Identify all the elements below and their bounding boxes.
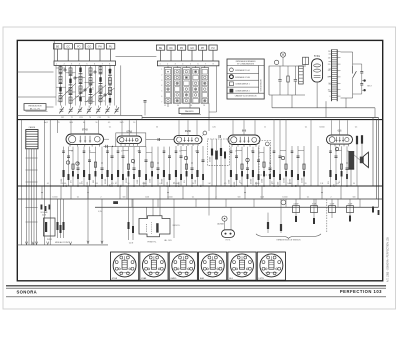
- wire: [208, 120, 210, 131]
- svg-text:25: 25: [58, 100, 60, 102]
- voltage divider brace: [256, 234, 321, 239]
- inter-block wire: [120, 65, 122, 115]
- output transformer: [348, 152, 354, 170]
- svg-text:T4: T4: [89, 117, 91, 119]
- svg-text:0,1: 0,1: [192, 196, 194, 198]
- mains plug pins: [363, 79, 365, 81]
- bleeder resistors under caps: [295, 216, 297, 222]
- svg-text:6: 6: [94, 63, 95, 65]
- converter stage components: [61, 147, 114, 187]
- alignment note line: [17, 244, 108, 246]
- wire: [146, 139, 174, 141]
- svg-text:4T: 4T: [121, 151, 123, 153]
- svg-text:2: 2: [331, 196, 332, 198]
- svg-text:COMMUTATEUR 2: COMMUTATEUR 2: [235, 90, 250, 93]
- svg-text:0,1: 0,1: [77, 196, 79, 198]
- svg-text:50: 50: [156, 127, 158, 129]
- wire: [280, 199, 282, 233]
- wire: [317, 146, 319, 186]
- harness arrows: [25, 242, 27, 245]
- svg-text:BOBINAGE OC-BE: BOBINAGE OC-BE: [235, 76, 251, 79]
- svg-text:PU: PU: [109, 46, 113, 49]
- svg-text:CV5: CV5: [98, 117, 101, 119]
- svg-text:20.000: 20.000: [250, 179, 252, 184]
- svg-text:0,1: 0,1: [305, 127, 307, 129]
- svg-text:6: 6: [208, 255, 209, 257]
- svg-text:SECT: SECT: [367, 85, 372, 87]
- svg-text:CV3: CV3: [79, 117, 82, 119]
- svg-text:0,5: 0,5: [224, 183, 226, 185]
- wire: [291, 95, 293, 108]
- svg-text:25: 25: [235, 151, 237, 153]
- AF dashed box: [259, 141, 271, 176]
- wire: [267, 213, 269, 233]
- svg-text:T2: T2: [71, 117, 73, 119]
- svg-text:5: 5: [190, 64, 191, 66]
- dial lamp: [274, 60, 278, 64]
- wire: [21, 120, 23, 245]
- svg-text:4: 4: [161, 85, 162, 87]
- svg-text:PO: PO: [77, 46, 81, 49]
- wire: [271, 95, 273, 108]
- svg-text:0,5 M: 0,5 M: [129, 242, 134, 244]
- svg-text:1: 1: [251, 269, 252, 271]
- svg-text:BE: BE: [56, 46, 60, 49]
- svg-text:5.000: 5.000: [261, 179, 263, 183]
- svg-text:500: 500: [238, 196, 241, 198]
- svg-text:OC: OC: [169, 48, 173, 50]
- svg-text:0,5: 0,5: [337, 183, 339, 185]
- svg-text:130: 130: [328, 57, 331, 59]
- svg-text:5.000: 5.000: [228, 180, 230, 184]
- svg-text:0,1: 0,1: [307, 196, 309, 198]
- svg-text:50: 50: [179, 151, 181, 153]
- svg-text:1n: 1n: [264, 127, 266, 129]
- svg-text:CV1: CV1: [61, 117, 64, 119]
- coupling capacitor: [219, 135, 221, 138]
- svg-text:PU: PU: [211, 48, 215, 50]
- resistor: [287, 76, 289, 82]
- harness wires: [26, 149, 28, 245]
- switch box: [44, 218, 56, 236]
- mid circles row: [66, 161, 69, 164]
- harness ticks: [26, 157, 38, 159]
- legend symbol circle thin: [230, 68, 234, 72]
- svg-text:6TH8: 6TH8: [82, 129, 88, 131]
- svg-text:4: 4: [182, 64, 183, 66]
- wires to contact bar: [160, 50, 162, 61]
- svg-text:0,1: 0,1: [195, 151, 197, 153]
- svg-text:0,5: 0,5: [115, 182, 117, 184]
- svg-text:2: 2: [157, 274, 158, 276]
- dashed feed wire: [326, 199, 328, 233]
- tube 6TH8: [66, 120, 104, 146]
- svg-text:6TH8: 6TH8: [112, 278, 118, 280]
- svg-text:5.000: 5.000: [175, 183, 179, 185]
- svg-text:0,1: 0,1: [272, 183, 274, 185]
- svg-text:4: 4: [144, 269, 145, 271]
- svg-text:0,5: 0,5: [339, 181, 341, 183]
- svg-text:2: 2: [101, 196, 102, 198]
- socket 6TA8: [140, 252, 168, 280]
- svg-text:VERS P.U.: VERS P.U.: [173, 225, 181, 227]
- chassis bus: [17, 185, 382, 187]
- svg-text:VOLUME: VOLUME: [41, 212, 49, 214]
- svg-text:2x25: 2x25: [120, 122, 124, 124]
- filter capacitor bank: [293, 206, 300, 213]
- contact bar S2: [157, 61, 219, 66]
- svg-text:3: 3: [161, 80, 162, 82]
- svg-text:8: 8: [163, 261, 164, 263]
- wire: [325, 101, 327, 117]
- bottom rule: [6, 296, 386, 298]
- power transformer T1: [331, 49, 333, 101]
- AF stage components: [228, 147, 271, 187]
- heater bus: [95, 206, 379, 208]
- wire: [159, 186, 161, 216]
- svg-text:PH: PH: [98, 46, 102, 49]
- terminal wires: [57, 49, 59, 61]
- switch terminal boxes: [156, 45, 164, 50]
- svg-text:5.000: 5.000: [195, 180, 197, 184]
- svg-text:7: 7: [161, 101, 162, 103]
- wire: [152, 199, 154, 216]
- svg-text:10.000: 10.000: [52, 196, 57, 198]
- svg-text:OC: OC: [66, 46, 70, 49]
- svg-text:5.000: 5.000: [287, 183, 291, 185]
- output stage components: [328, 146, 349, 187]
- bus bridge wires 2: [131, 199, 133, 207]
- left resistor drops: [57, 199, 59, 238]
- grid resistors right of output tube: [356, 136, 358, 145]
- svg-text:50: 50: [240, 183, 242, 185]
- svg-text:50.000: 50.000: [319, 127, 324, 129]
- svg-text:350: 350: [328, 89, 331, 91]
- svg-text:ET COMMUTATEURS: ET COMMUTATEURS: [237, 62, 255, 65]
- svg-text:50: 50: [81, 100, 83, 102]
- wire: [53, 41, 55, 61]
- svg-text:3: 3: [71, 63, 72, 65]
- svg-text:6TA8: 6TA8: [141, 277, 147, 280]
- svg-text:50: 50: [71, 151, 73, 153]
- svg-text:7: 7: [102, 63, 103, 65]
- tuner coil network: [56, 65, 115, 105]
- trimmer capacitor row: [59, 107, 64, 113]
- svg-text:0,5 M: 0,5 M: [42, 215, 47, 217]
- mains capacitors: [360, 72, 363, 74]
- detector components: [211, 149, 213, 156]
- svg-text:6H8: 6H8: [242, 130, 247, 132]
- frame antenna coil: [26, 130, 38, 149]
- svg-text:5: 5: [86, 63, 87, 65]
- power feed bus: [272, 107, 375, 109]
- wire: [49, 120, 51, 245]
- filter choke: [299, 66, 304, 84]
- svg-text:0,5: 0,5: [251, 151, 253, 153]
- svg-text:CADRE: CADRE: [29, 126, 36, 129]
- svg-text:7: 7: [157, 255, 158, 257]
- schematic border frame: [17, 40, 382, 280]
- wave switch bar S1: [54, 61, 116, 65]
- svg-text:4: 4: [115, 269, 116, 271]
- coupling components B: [289, 146, 305, 187]
- wire: [316, 82, 318, 108]
- IF stage components: [115, 147, 171, 187]
- svg-text:0,5: 0,5: [108, 122, 110, 124]
- wire: [57, 120, 59, 133]
- svg-text:3-4: 3-4: [177, 105, 179, 107]
- svg-text:5-6: 5-6: [190, 105, 192, 107]
- wire: [230, 207, 232, 230]
- svg-text:INTER: INTER: [47, 239, 53, 241]
- dial lamp lower: [222, 216, 227, 221]
- svg-text:VUS DESSOUS: VUS DESSOUS: [261, 78, 263, 91]
- mains switch: [353, 66, 357, 78]
- svg-text:PRISE P.U.: PRISE P.U.: [147, 242, 157, 244]
- main bus: [17, 119, 382, 121]
- svg-text:6: 6: [150, 255, 151, 257]
- HT bus right: [142, 117, 379, 119]
- svg-text:H.P.S.: H.P.S.: [226, 239, 231, 241]
- tube 6H8: [228, 120, 260, 147]
- svg-text:20.000: 20.000: [105, 179, 107, 184]
- bus bridge wires: [41, 186, 43, 199]
- svg-text:50.000: 50.000: [210, 157, 212, 162]
- svg-text:10: 10: [133, 122, 135, 124]
- svg-text:CHASSIS VU DE DESSOUS: CHASSIS VU DE DESSOUS: [235, 95, 258, 98]
- wire: [354, 155, 360, 160]
- wire: [216, 66, 218, 112]
- legend symbol square: [230, 82, 234, 86]
- grid cap circle: [203, 131, 207, 135]
- svg-text:6V3: 6V3: [328, 77, 331, 79]
- right feed verticals: [372, 118, 374, 187]
- svg-text:8: 8: [213, 64, 214, 66]
- svg-text:5.000: 5.000: [62, 183, 66, 185]
- svg-text:6: 6: [197, 64, 198, 66]
- grid cap circle: [265, 142, 269, 146]
- band switch wipers: [60, 83, 115, 102]
- svg-text:0,5: 0,5: [355, 127, 357, 129]
- svg-text:5.000: 5.000: [137, 180, 139, 184]
- svg-text:PERFECTION 103: PERFECTION 103: [340, 289, 382, 294]
- svg-text:A.T. 1053 - SONORA - PERFECTIO: A.T. 1053 - SONORA - PERFECTION 103: [387, 237, 390, 282]
- svg-text:0,25: 0,25: [212, 127, 215, 129]
- svg-text:PALIERS: PALIERS: [185, 110, 194, 113]
- antenna terminal boxes: [53, 44, 61, 49]
- paliers label box: [179, 108, 199, 114]
- detector stage components: [173, 146, 204, 187]
- socket 6H8: [199, 252, 227, 280]
- svg-text:1: 1: [159, 64, 160, 66]
- heater drop wires: [128, 186, 130, 240]
- pickup socket outline: [139, 216, 170, 237]
- lamp circle: [281, 200, 286, 205]
- svg-text:1.000: 1.000: [145, 196, 149, 198]
- svg-text:1: 1: [163, 269, 164, 271]
- svg-text:BE: BE: [159, 48, 163, 50]
- svg-text:8: 8: [251, 261, 252, 263]
- pilot lamp: [280, 52, 285, 57]
- svg-text:5: 5: [203, 261, 204, 263]
- svg-text:500: 500: [123, 196, 126, 198]
- svg-text:5.000: 5.000: [149, 179, 151, 183]
- socket L5TD: [257, 252, 285, 280]
- coupling capacitor mid: [144, 101, 147, 103]
- svg-text:3: 3: [175, 64, 176, 66]
- legend symbol square filled: [230, 89, 234, 93]
- svg-text:2: 2: [161, 74, 162, 76]
- wire: [141, 115, 143, 119]
- svg-text:6M8D: 6M8D: [171, 278, 177, 280]
- svg-text:1: 1: [161, 69, 162, 71]
- power loop wire: [269, 66, 306, 95]
- svg-text:MISE AU POINT: MISE AU POINT: [55, 241, 70, 244]
- svg-text:T6: T6: [108, 117, 110, 119]
- wire: [374, 108, 376, 118]
- svg-text:COMMUTATEUR 1: COMMUTATEUR 1: [235, 83, 250, 86]
- preselector label box: [24, 104, 46, 111]
- svg-text:500: 500: [353, 196, 356, 198]
- legend box: [227, 59, 264, 99]
- detector dashed box: [208, 139, 230, 165]
- svg-text:0,1: 0,1: [160, 183, 162, 185]
- ground bus: [17, 198, 382, 200]
- wire: [224, 221, 226, 230]
- svg-text:0,1: 0,1: [89, 151, 91, 153]
- socket 6L6: [228, 252, 256, 280]
- svg-text:PH: PH: [201, 48, 205, 50]
- svg-text:245: 245: [328, 70, 331, 72]
- svg-text:PRESELECTEUR: PRESELECTEUR: [28, 105, 42, 107]
- wire: [44, 120, 46, 245]
- svg-text:3-30: 3-30: [93, 87, 95, 90]
- svg-text:4: 4: [79, 63, 80, 65]
- potentiometer wires: [87, 186, 89, 243]
- svg-text:50: 50: [128, 183, 130, 185]
- svg-text:110: 110: [328, 51, 331, 53]
- fuse: [303, 57, 309, 64]
- svg-text:15: 15: [104, 100, 106, 102]
- tube 6L6: [327, 120, 353, 146]
- svg-text:7: 7: [205, 64, 206, 66]
- svg-text:6: 6: [161, 96, 162, 98]
- wire: [345, 98, 347, 108]
- svg-text:6: 6: [238, 255, 239, 257]
- svg-text:REPARTITEUR DE TENSION: REPARTITEUR DE TENSION: [277, 239, 302, 242]
- inter-tube coupling wire: [104, 145, 116, 147]
- svg-text:25: 25: [58, 122, 60, 124]
- svg-text:BE - OC - PO: BE - OC - PO: [30, 108, 41, 110]
- svg-text:1-2: 1-2: [164, 105, 166, 107]
- title strip double rule: [6, 285, 386, 287]
- svg-text:0,5: 0,5: [111, 183, 113, 185]
- legend symbol circle thick: [230, 75, 234, 79]
- svg-text:GO: GO: [88, 46, 92, 49]
- speaker: [360, 157, 363, 164]
- svg-text:0,1: 0,1: [109, 127, 111, 129]
- svg-text:8.000: 8.000: [142, 183, 146, 185]
- left bus segment: [17, 114, 142, 116]
- svg-text:L5TD: L5TD: [259, 278, 265, 280]
- socket 6M8D: [169, 252, 197, 280]
- svg-text:3: 3: [238, 274, 239, 276]
- svg-text:1: 1: [192, 269, 193, 271]
- svg-text:8: 8: [192, 261, 193, 263]
- HP jack oval: [222, 230, 235, 238]
- svg-text:25.000: 25.000: [301, 178, 303, 183]
- primary stubs: [329, 53, 332, 55]
- wire: [173, 199, 175, 238]
- right side resistors: [372, 207, 374, 213]
- svg-text:8: 8: [109, 63, 110, 65]
- wire: [146, 207, 148, 218]
- svg-text:GO: GO: [190, 48, 194, 50]
- svg-text:PO: PO: [180, 48, 184, 50]
- svg-text:5Y3G: 5Y3G: [314, 55, 320, 58]
- wire: [46, 106, 54, 108]
- svg-text:20: 20: [305, 183, 307, 185]
- svg-text:5: 5: [115, 261, 116, 263]
- socket 6TH8: [111, 252, 139, 280]
- tube 6M8D: [174, 120, 202, 146]
- svg-text:3: 3: [150, 274, 151, 276]
- left margin wires: [17, 71, 53, 73]
- svg-text:1n: 1n: [83, 122, 85, 124]
- svg-text:1: 1: [56, 63, 57, 65]
- table bottom wires: [167, 103, 169, 107]
- svg-text:8.000: 8.000: [255, 183, 259, 185]
- divider resistors: [267, 222, 269, 229]
- svg-text:0: 0: [330, 96, 331, 98]
- coupling components A: [271, 120, 287, 187]
- svg-text:50: 50: [353, 183, 355, 185]
- svg-text:0,1: 0,1: [47, 183, 49, 185]
- wire: [208, 186, 210, 216]
- svg-text:5: 5: [161, 91, 162, 93]
- capacitor: [278, 80, 281, 82]
- svg-text:10.000: 10.000: [282, 196, 287, 198]
- svg-text:6TA8: 6TA8: [127, 130, 133, 133]
- svg-text:50: 50: [95, 122, 97, 124]
- svg-text:20: 20: [192, 183, 194, 185]
- tube 6TA8: [116, 120, 146, 146]
- svg-text:4: 4: [203, 269, 204, 271]
- bus-mounted resistors: [41, 205, 43, 210]
- svg-text:2: 2: [167, 64, 168, 66]
- svg-text:220: 220: [328, 64, 331, 66]
- svg-text:2: 2: [64, 63, 65, 65]
- wire: [310, 120, 312, 186]
- capacitor: [294, 80, 297, 82]
- svg-text:SONORA: SONORA: [17, 290, 37, 295]
- svg-text:20: 20: [79, 183, 81, 185]
- switch contact table: [164, 66, 208, 103]
- svg-text:25.000: 25.000: [283, 178, 285, 183]
- junction blob: [113, 201, 118, 204]
- svg-text:7-8: 7-8: [203, 105, 205, 107]
- svg-text:5: 5: [144, 261, 145, 263]
- svg-text:3: 3: [208, 274, 209, 276]
- wire: [341, 52, 353, 98]
- svg-text:BOBINAGE PO-GO: BOBINAGE PO-GO: [235, 69, 251, 72]
